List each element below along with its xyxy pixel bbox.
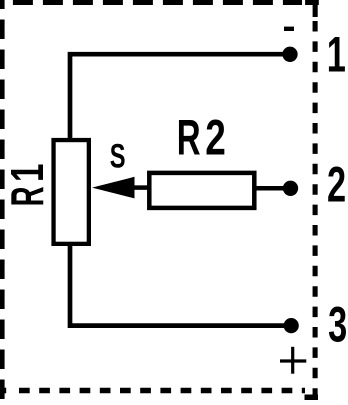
svg-text:1: 1 (327, 27, 346, 83)
dashed border bottom edge corner dash (0, 388, 6, 394)
dashed border right edge (313, 21, 318, 400)
wire terminal 1 to top of R1 (70, 54, 290, 140)
dashed border right edge corner dash (313, 5, 318, 17)
terminal dot 1 (282, 47, 297, 62)
terminal dot 2 (283, 181, 298, 196)
wire bottom of R1 to terminal 3 (70, 244, 291, 326)
svg-text:3: 3 (328, 297, 347, 353)
svg-text:S: S (110, 138, 126, 175)
svg-text:R: R (177, 110, 201, 165)
plus polarity mark (280, 359, 306, 362)
resistor R2 body (149, 173, 254, 208)
svg-text:1: 1 (3, 164, 53, 182)
terminal dot 3 (284, 318, 299, 333)
dashed border left edge (0, 0, 5, 400)
dashed border bottom-right corner piece (305, 395, 319, 401)
dashed border top edge (0, 0, 302, 5)
minus polarity mark (284, 27, 294, 31)
svg-text:2: 2 (205, 110, 226, 166)
svg-text:2: 2 (327, 157, 346, 213)
resistor R1 (potentiometer body) (54, 140, 89, 244)
wiper wire to R2 (134, 185, 150, 190)
svg-text:R: R (3, 186, 54, 206)
dashed border top-right corner dash (305, 0, 319, 5)
dashed border bottom edge (19, 388, 305, 394)
wire R2 to terminal 2 (256, 186, 285, 191)
wiper arrow S (92, 177, 135, 199)
